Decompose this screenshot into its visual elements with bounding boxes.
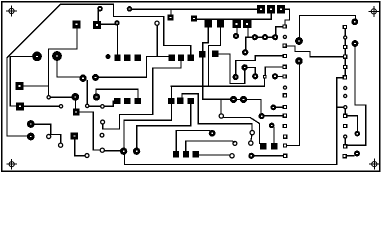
via D255 — [252, 73, 258, 79]
fiducial top-left — [6, 6, 17, 17]
pad D117 small round — [114, 20, 119, 25]
via R102m — [100, 133, 104, 137]
wire D117 down to Q1 row — [116, 26, 118, 55]
wire P8b to ring R61 — [24, 105, 58, 107]
via E3 — [272, 34, 278, 40]
wire R49 to R60 — [51, 135, 61, 143]
pad P19 square — [15, 82, 23, 90]
pin CN2-2 — [344, 36, 347, 39]
pin CN1-8 — [283, 94, 286, 97]
via D299m — [295, 57, 303, 65]
pad Q1b — [124, 55, 130, 61]
pad Q1c — [134, 55, 140, 61]
wire Q186 to R235 — [186, 141, 234, 151]
wire S2 up to D100 — [97, 11, 99, 20]
via D273 — [271, 105, 277, 111]
wire Q215 to D244 — [219, 54, 245, 84]
wire DC96 up-east to Q3c — [96, 89, 138, 98]
via RA — [86, 104, 89, 107]
wire T2 header line — [197, 13, 271, 19]
wire D299m long down to CN1-13 — [287, 65, 300, 145]
via D261 — [259, 113, 265, 119]
via D212 — [209, 130, 216, 137]
pad Q2b — [178, 55, 184, 61]
fiducial bottom-right — [369, 159, 380, 170]
pin CN1-10 — [283, 114, 286, 117]
pad S2 square — [93, 21, 101, 29]
pin CN1-6 — [283, 75, 286, 78]
wire P74 to R87 — [75, 140, 85, 156]
pin CN2-1 — [343, 25, 346, 28]
pin CN1-9 — [283, 105, 286, 108]
wire D233-D243 link — [237, 98, 240, 100]
wire CN2-14 to D357b — [347, 155, 354, 157]
pad Q186 — [183, 151, 189, 157]
wire D355 long chain to CN2-13 — [347, 47, 366, 145]
via R157 — [155, 21, 159, 25]
via D235b — [233, 74, 239, 80]
pad S5 square — [277, 5, 285, 13]
wire D251 to CN1-14 — [255, 155, 284, 157]
fiducial bottom-left — [6, 159, 17, 170]
pin CN1-12 — [284, 135, 287, 138]
fiducial top-right — [368, 6, 379, 17]
pin CN2-12 — [344, 135, 347, 138]
pad PB solid square — [217, 20, 224, 28]
via D271 — [269, 123, 275, 129]
wire E3 up to CN1-1 — [276, 27, 283, 35]
wire S2 east to D117 — [101, 23, 114, 25]
via R102t — [101, 120, 105, 124]
pin CN1-5 — [283, 65, 286, 68]
via D244 — [241, 64, 247, 70]
pad S3 square — [257, 5, 265, 13]
pad D75 round — [71, 93, 79, 101]
pad Q263 — [260, 143, 266, 149]
pin CN2-6 — [343, 76, 346, 79]
via RB — [101, 105, 105, 109]
pad D129 small round — [127, 6, 133, 12]
pin CN1-14 — [284, 154, 287, 157]
pad S7 square — [243, 20, 251, 28]
wire V221 — [220, 99, 222, 113]
wire S7 down to donut row — [246, 28, 275, 49]
pad T2 small square — [191, 15, 197, 21]
pad DB95 round — [92, 74, 99, 81]
wire D271 to Q274 — [273, 127, 275, 143]
wire S6 to D236 — [236, 28, 238, 33]
pad P74 square — [71, 132, 78, 139]
via D354 — [351, 18, 358, 25]
via R87 — [85, 154, 89, 158]
via R48 — [47, 96, 50, 99]
pin CN1-11 — [283, 124, 286, 127]
pin CN2-11 — [344, 124, 347, 127]
via D299t — [295, 37, 303, 45]
via D357b — [354, 151, 360, 157]
via R49 — [47, 134, 51, 138]
via D355 — [352, 40, 359, 47]
via R250 — [249, 141, 253, 145]
pin CN1-7 — [283, 86, 286, 89]
wire R252-R250 link — [250, 136, 253, 141]
pad Q3a — [114, 98, 120, 104]
pad S1 square — [73, 20, 81, 28]
pin CN1-2 — [283, 35, 286, 38]
wire O264 up-east — [265, 67, 283, 75]
pad P8b square — [16, 102, 24, 110]
pad Q4b — [177, 98, 183, 104]
wire CN2-10 to D357 — [347, 116, 357, 131]
via pad A1 — [27, 133, 35, 141]
pad D2 large round — [52, 51, 62, 61]
wire P19 to junction — [24, 85, 49, 87]
wire D75 to P76 — [75, 101, 77, 109]
pad Q1a — [114, 55, 120, 61]
wire R48 to D75 — [51, 96, 71, 98]
pad Q196 — [193, 151, 199, 157]
pad dot108 round solid — [106, 54, 111, 59]
pad Q215 — [212, 51, 218, 57]
via E2 — [262, 34, 268, 40]
pad D30 round — [27, 120, 35, 128]
via D245 — [242, 49, 248, 55]
pad Q3b — [124, 98, 130, 104]
via D357 — [355, 131, 361, 137]
via D243 — [240, 96, 247, 103]
wire D299t up-east to D354 — [299, 16, 355, 38]
pin CN2-7 — [344, 86, 347, 89]
wire R102t zigzag to Q2b — [103, 61, 181, 129]
wire D30 to R49 — [35, 124, 51, 134]
wire DB95 to Q2a — [99, 56, 169, 77]
pad D100 small round — [97, 6, 103, 12]
wire P76 east-south to R102b — [80, 112, 100, 150]
wire CN2 links — [344, 29, 346, 145]
pin CN1-1 — [283, 25, 286, 28]
pin CN2-14 — [343, 155, 346, 158]
wire Q180 chain — [182, 94, 252, 130]
pad Q3c — [135, 98, 141, 104]
via DB123 — [120, 148, 127, 155]
pad DC96 round — [93, 93, 100, 100]
pin CN2-4 — [344, 55, 347, 58]
via E1 — [252, 34, 258, 40]
pad Q176 — [173, 151, 179, 157]
wire Q176 to D212 — [176, 130, 209, 151]
via R235 — [233, 141, 237, 145]
pin CN2-10 — [344, 114, 347, 117]
via D233 — [230, 96, 237, 103]
wire PB chain — [171, 28, 264, 87]
pad Q4a — [168, 98, 174, 104]
pad Q202 — [199, 51, 205, 57]
wire top bus to S3 — [132, 8, 256, 10]
via R60 — [59, 143, 63, 147]
via R102b — [100, 148, 104, 152]
wire ring157 stub — [156, 26, 158, 56]
pad S6 square — [233, 20, 241, 28]
wire R102b to DB123 — [105, 150, 120, 152]
wire D235b up to CN1-4 — [236, 56, 283, 74]
wire staircase CN1-3 to CN2-4 — [287, 46, 344, 57]
via D236 — [233, 33, 239, 39]
pad Q4c — [188, 98, 194, 104]
wire bus2 DB123 to Q4a — [124, 86, 171, 147]
pad D1 large round — [32, 52, 42, 62]
pin CN2-3 — [344, 45, 347, 48]
wire RB to Q3 row — [105, 101, 114, 106]
wire S1 down-left — [48, 29, 77, 95]
pad Q2c — [188, 55, 194, 61]
wire D2 down to DA — [57, 61, 79, 77]
pin CN1-3 — [283, 44, 286, 47]
via DB136 — [133, 148, 140, 155]
pin CN2-9 — [344, 106, 347, 109]
wire R221 diag to Q263 — [224, 117, 259, 143]
wire chamfer diagonal net — [7, 4, 191, 136]
via R252 — [250, 130, 254, 134]
pin CN2-13 — [344, 145, 347, 148]
wire RA to RB — [90, 105, 100, 107]
pad S4 square — [267, 5, 275, 13]
wire PA chain — [203, 28, 231, 100]
via D275 — [272, 73, 278, 79]
pad P76 square small — [73, 109, 80, 116]
pad T1 small square — [168, 14, 174, 20]
pad PA solid square — [205, 20, 212, 28]
pad Q2a — [169, 55, 175, 61]
wire S5 to CN1-1 — [285, 9, 289, 24]
pin CN2-5 — [344, 65, 347, 68]
wire DA down to ring RA — [86, 81, 88, 104]
via R61 — [59, 105, 62, 108]
wire D243 to D261 — [247, 99, 261, 113]
wire D244 to D255 — [248, 67, 255, 73]
wire T1 stub — [170, 9, 172, 14]
via R221 — [219, 114, 223, 118]
via R232 — [230, 154, 234, 158]
wire Q196 to R232 — [199, 154, 229, 156]
pin CN2-8 — [344, 94, 347, 97]
pad Q274 — [271, 143, 277, 149]
wire D261 to CN1-10 — [265, 115, 283, 117]
via D251 — [248, 153, 254, 159]
wire D275 to CN1-6 — [278, 76, 283, 78]
wire bus3 DB136 to Q4c — [137, 104, 191, 147]
pin CN1-13 — [283, 144, 286, 147]
pin CN1-4 — [283, 54, 286, 57]
board outline frame — [2, 2, 380, 171]
wire D1 to P8b — [10, 56, 32, 106]
wire long bottom bus — [124, 78, 343, 165]
pad DA round — [79, 75, 86, 82]
via O264 — [264, 76, 267, 79]
wire D273 to CN1-9 — [276, 106, 283, 108]
